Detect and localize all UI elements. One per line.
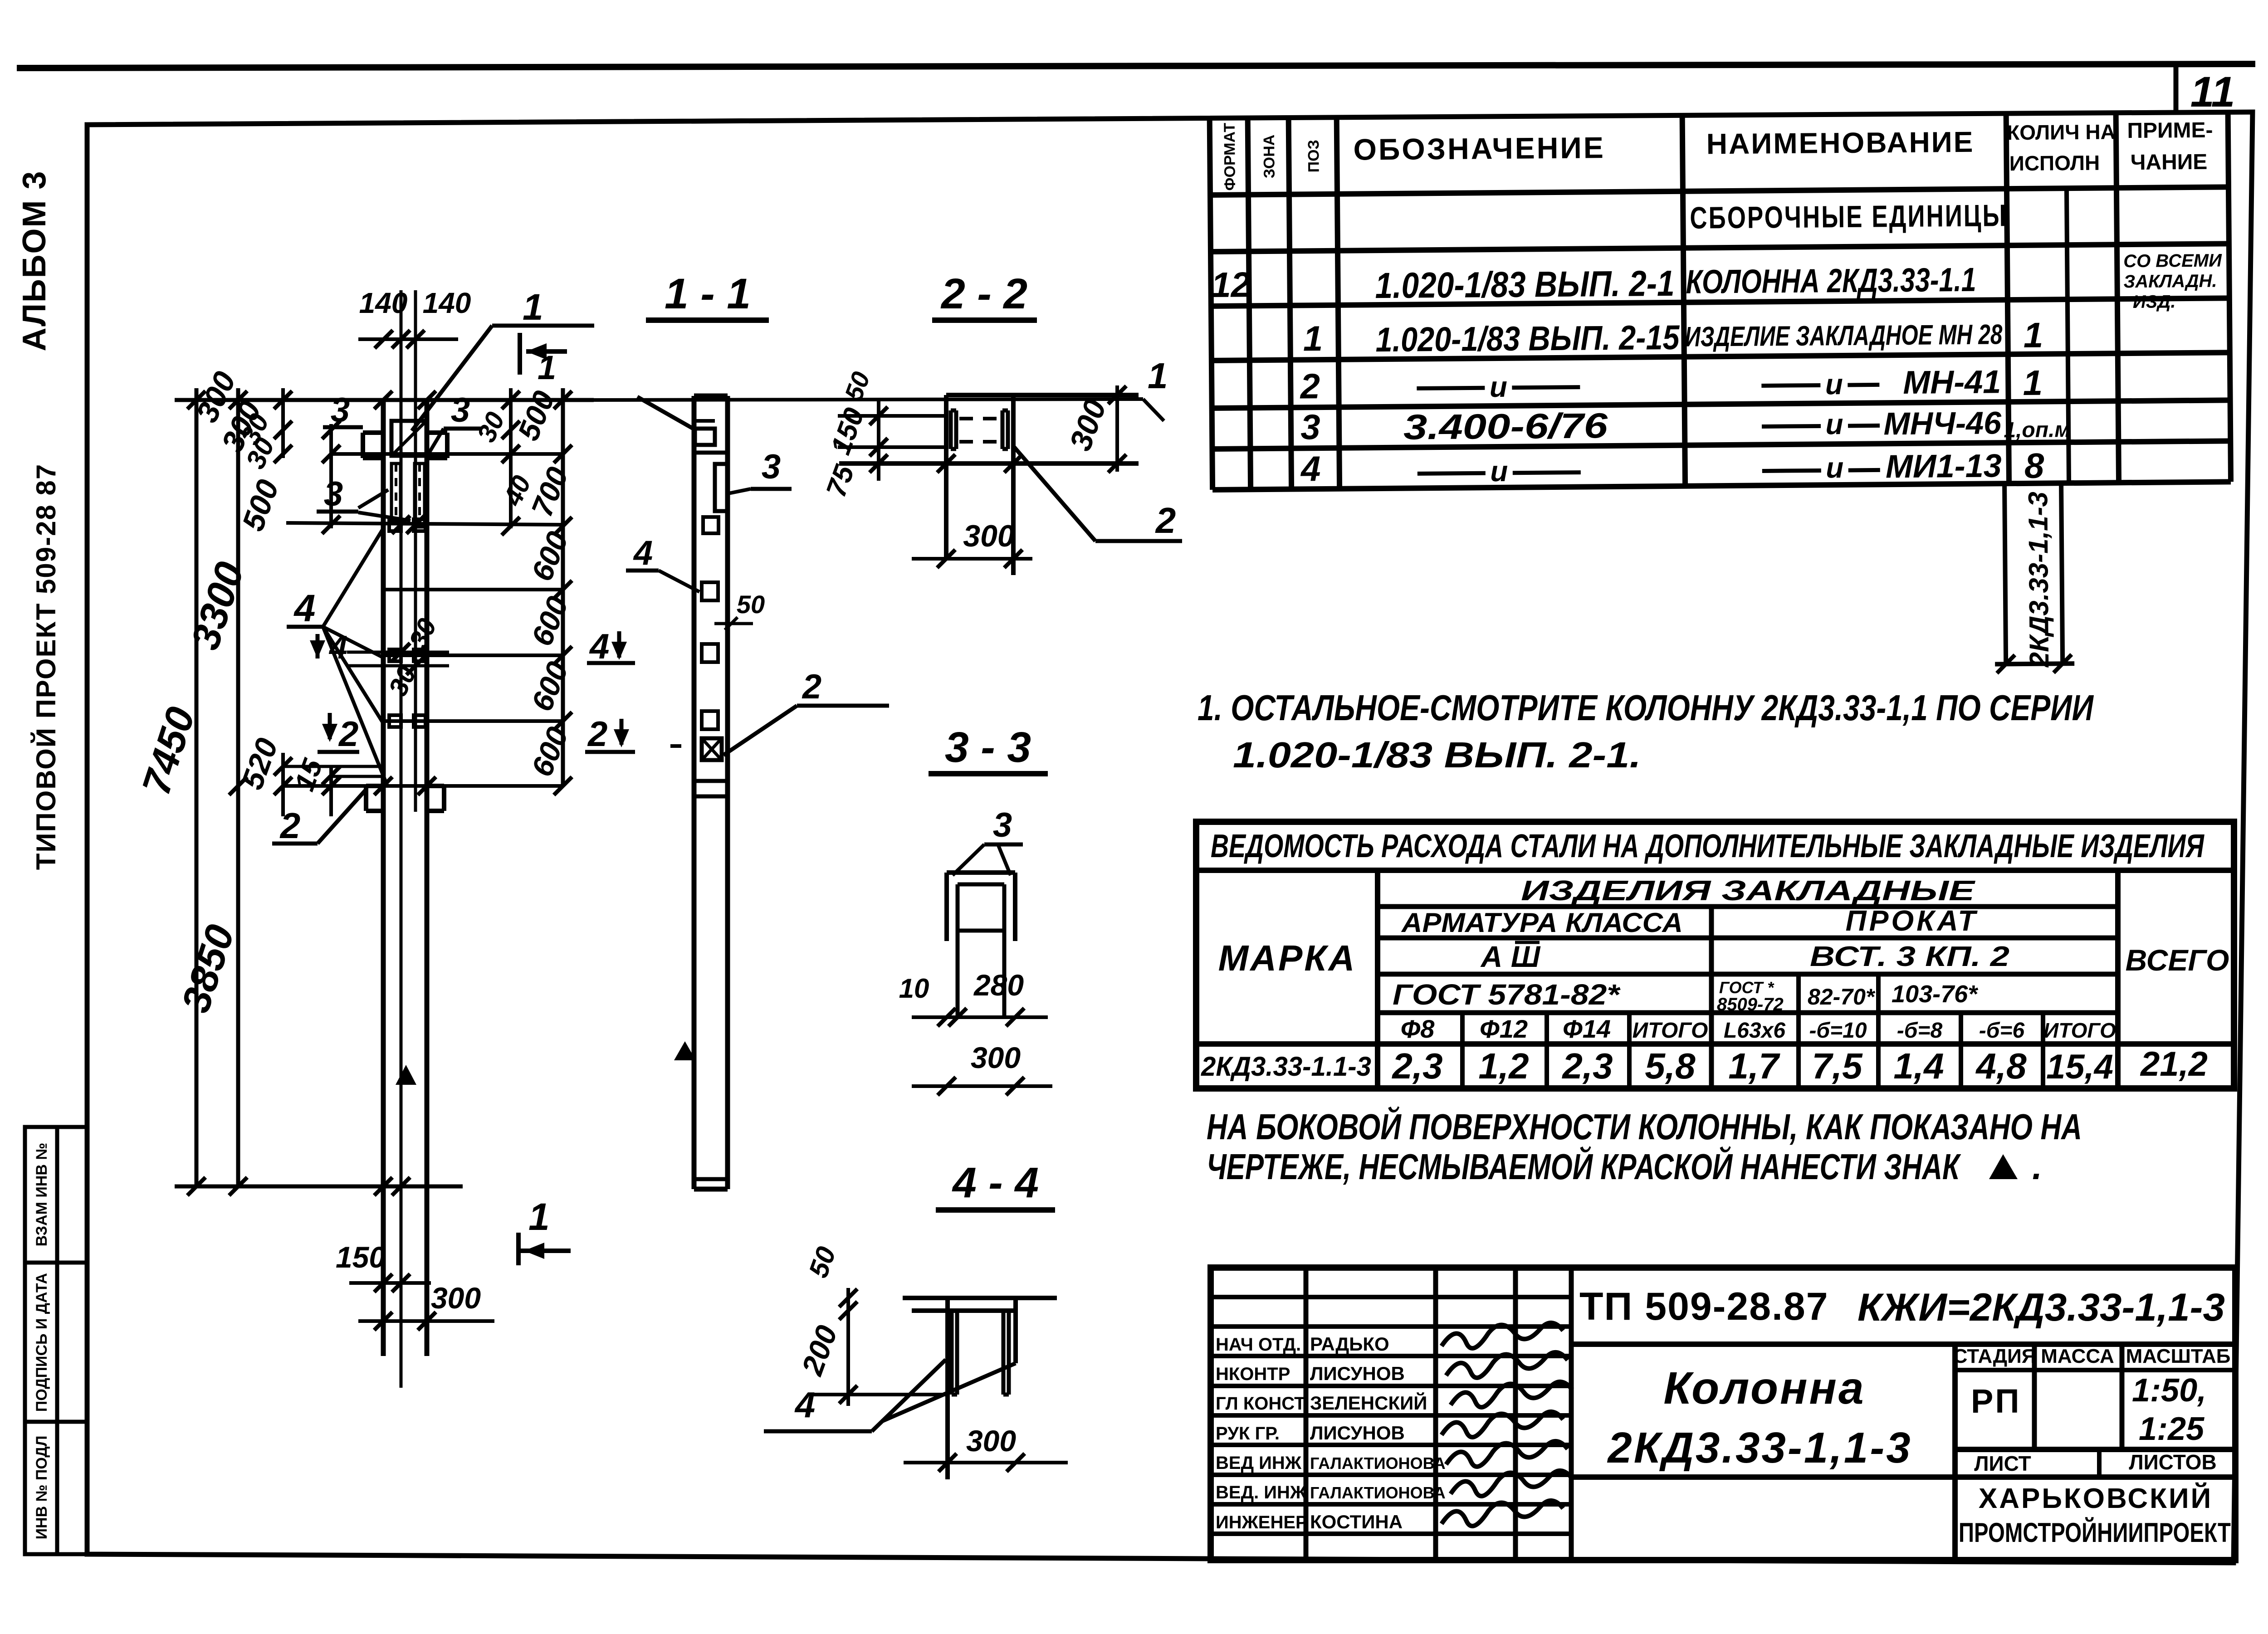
- svg-text:103-76*: 103-76*: [1892, 980, 1979, 1008]
- svg-text:3: 3: [762, 448, 781, 486]
- svg-text:ГОСТ 5781-82*: ГОСТ 5781-82*: [1393, 978, 1621, 1011]
- section 2-2 body: [839, 395, 1139, 575]
- scale 1:50 1:25: [2132, 1372, 2206, 1447]
- svg-text:ТИПОВОЙ ПРОЕКТ 509-28 87: ТИПОВОЙ ПРОЕКТ 509-28 87: [31, 463, 61, 870]
- svg-text:ПОДПИСЬ И ДАТА: ПОДПИСЬ И ДАТА: [33, 1273, 50, 1412]
- 2-2 bottom dim 300: [912, 519, 1032, 568]
- svg-text:КОЛИЧ НА: КОЛИЧ НА: [2007, 120, 2116, 144]
- svg-text:2: 2: [279, 805, 301, 846]
- svg-text:15,4: 15,4: [2046, 1048, 2113, 1086]
- svg-text:ТП 509-28.87: ТП 509-28.87: [1579, 1285, 1829, 1328]
- svg-text:1,7: 1,7: [1728, 1046, 1780, 1086]
- svg-text:ЛИСУНОВ: ЛИСУНОВ: [1310, 1422, 1405, 1444]
- svg-text:ПРИМЕ-: ПРИМЕ-: [2127, 118, 2213, 143]
- svg-text:700: 700: [525, 462, 575, 521]
- svg-text:82-70*: 82-70*: [1808, 984, 1876, 1010]
- svg-text:НАЧ ОТД.: НАЧ ОТД.: [1216, 1335, 1301, 1355]
- section mark 4 down-left: [310, 629, 347, 666]
- sheet top edge line: [17, 64, 2255, 68]
- marka strip below spec table: [1994, 483, 2074, 673]
- svg-text:ИСПОЛН: ИСПОЛН: [2009, 151, 2100, 176]
- svg-text:ГАЛАКТИОНОВА: ГАЛАКТИОНОВА: [1310, 1483, 1446, 1502]
- level line 1733: [283, 777, 563, 795]
- svg-text:1: 1: [2023, 363, 2043, 403]
- svg-text:280: 280: [973, 968, 1024, 1002]
- svg-text:8509-72: 8509-72: [1717, 995, 1784, 1015]
- 4-4 embedded channel: [952, 1313, 1009, 1395]
- svg-text:50: 50: [803, 1243, 842, 1282]
- spec header КОЛИЧ НА ИСПОЛН: [2007, 120, 2116, 175]
- svg-text:21,2: 21,2: [2140, 1045, 2208, 1083]
- right inner dimension line 30/40: [502, 388, 520, 535]
- svg-text:3: 3: [331, 391, 350, 429]
- page number box: [2174, 66, 2179, 114]
- svg-text:ИЗДЕЛИЯ ЗАКЛАДНЫЕ: ИЗДЕЛИЯ ЗАКЛАДНЫЕ: [1521, 875, 1975, 907]
- svg-text:1:50,: 1:50,: [2132, 1372, 2206, 1409]
- vedomost data row: [1201, 1045, 2208, 1086]
- svg-text:НАИМЕНОВАНИЕ: НАИМЕНОВАНИЕ: [1706, 126, 1975, 161]
- svg-text:1: 1: [2023, 315, 2043, 355]
- svg-text:АРМАТУРА КЛАССА: АРМАТУРА КЛАССА: [1401, 907, 1683, 938]
- svg-text:НА БОКОВОЙ ПОВЕРХНОСТИ КОЛОН: НА БОКОВОЙ ПОВЕРХНОСТИ КОЛОННЫ, КАК ПОКА…: [1207, 1106, 2082, 1147]
- dim vertical 730 bottom: [322, 766, 340, 816]
- quality sign triangle in note: [1989, 1146, 2042, 1187]
- vedomost table outer border: [1196, 822, 2234, 1088]
- svg-text:2: 2: [587, 714, 607, 754]
- svg-text:МАРКА: МАРКА: [1218, 938, 1357, 978]
- title block right grid: [1571, 1344, 2235, 1560]
- svg-text:ЧЕРТЕЖЕ, НЕСМЫВАЕМОЙ КРАСКОЙ: ЧЕРТЕЖЕ, НЕСМЫВАЕМОЙ КРАСКОЙ НАНЕСТИ ЗНА…: [1207, 1146, 1961, 1187]
- svg-text:140: 140: [359, 287, 408, 319]
- svg-text:4: 4: [293, 587, 316, 629]
- svg-text:300: 300: [431, 1281, 481, 1315]
- svg-text:300: 300: [1063, 395, 1113, 455]
- svg-text:ВЕД ИНЖ: ВЕД ИНЖ: [1216, 1453, 1302, 1473]
- spec row 1 ИЗДЕЛИЕ ЗАКЛАДНОЕ МН 28: [1303, 313, 2043, 361]
- svg-text:1: 1: [538, 349, 556, 386]
- label 2 on section 1-1: [723, 668, 889, 755]
- svg-text:ВСЕГО: ВСЕГО: [2126, 943, 2229, 977]
- specification table grid: [1210, 111, 2231, 490]
- label 3 mid with leaders: [317, 475, 411, 521]
- leader into section 1-1: [637, 397, 693, 429]
- margin stamp boxes: [25, 1127, 87, 1554]
- vedomost grid: [1196, 870, 2234, 1088]
- svg-text:300: 300: [971, 1041, 1021, 1074]
- dim 300 bottom: [358, 1281, 494, 1330]
- quality sign on elevation: [396, 1065, 416, 1085]
- section mark 1 bottom: [518, 1195, 571, 1265]
- svg-text:КОЛОННА 2КД3.33-1.1: КОЛОННА 2КД3.33-1.1: [1686, 261, 1976, 301]
- leader 2 on section 2-2: [1014, 447, 1182, 541]
- svg-text:-б=10: -б=10: [1809, 1019, 1867, 1043]
- svg-text:ВЕД. ИНЖ: ВЕД. ИНЖ: [1216, 1483, 1307, 1502]
- svg-text:1,оп.м: 1,оп.м: [2004, 418, 2071, 442]
- lower corbel: [366, 786, 444, 811]
- 1-1 small plate a: [703, 517, 719, 533]
- svg-text:12: 12: [1211, 264, 1251, 305]
- svg-text:СБОРОЧНЫЕ ЕДИНИЦЫ: СБОРОЧНЫЕ ЕДИНИЦЫ: [1690, 198, 2008, 235]
- svg-text:НКОНТР: НКОНТР: [1216, 1364, 1290, 1384]
- dim 150 bottom: [336, 1240, 431, 1292]
- svg-text:ЛИСУНОВ: ЛИСУНОВ: [1310, 1363, 1405, 1384]
- svg-text:2: 2: [1155, 500, 1176, 541]
- elevation dimension line 7450 vertical: [187, 388, 205, 1195]
- 4-4 left dims: [812, 1288, 948, 1406]
- section title 1-1: [646, 270, 769, 320]
- svg-text:1:25: 1:25: [2139, 1411, 2204, 1447]
- dim 140 140: [358, 287, 471, 348]
- svg-text:50: 50: [737, 590, 765, 619]
- spec row 3 3.400-6/76 МНЧ-46: [1300, 401, 2071, 448]
- svg-text:3850: 3850: [173, 919, 243, 1018]
- svg-text:АЛЬБОМ 3: АЛЬБОМ 3: [16, 171, 53, 351]
- svg-text:520: 520: [235, 734, 284, 794]
- svg-text:ГОСТ *: ГОСТ *: [1719, 978, 1774, 997]
- 2-2 right dim 300: [1063, 385, 1126, 473]
- section mark 1 top: [520, 333, 567, 386]
- left top dim vertical 730: [322, 421, 340, 534]
- svg-text:15: 15: [289, 754, 329, 795]
- svg-text:1: 1: [1148, 356, 1168, 396]
- svg-text:ПРОМСТРОЙНИИПРОЕКТ: ПРОМСТРОЙНИИПРОЕКТ: [1959, 1517, 2231, 1548]
- svg-text:МН-41: МН-41: [1903, 364, 2001, 401]
- svg-text:4: 4: [633, 534, 653, 572]
- leader 1 to top plate: [412, 287, 594, 431]
- svg-text:8: 8: [2024, 446, 2045, 486]
- 1-1 small plate c: [702, 644, 718, 662]
- svg-text:и: и: [1825, 408, 1843, 440]
- svg-text:1.020-1/83 ВЫП. 2-1: 1.020-1/83 ВЫП. 2-1: [1375, 263, 1675, 306]
- svg-text:ФОРМАТ: ФОРМАТ: [1221, 122, 1239, 190]
- label 3 top left: [323, 391, 363, 429]
- signature row ВЕД. ИНЖ ГАЛАКТИОНОВА: [1216, 1471, 1572, 1502]
- svg-text:ЗЕЛЕНСКИЙ: ЗЕЛЕНСКИЙ: [1310, 1392, 1427, 1414]
- 2-2 left dim lines: [838, 399, 1022, 481]
- column axis line A: [400, 290, 403, 1388]
- svg-text:1,4: 1,4: [1893, 1046, 1944, 1086]
- 2-2 embedded channel dashed: [951, 410, 1008, 449]
- section 4-4 body: [903, 1298, 1057, 1479]
- svg-text:1: 1: [528, 1195, 550, 1238]
- label 4 on section 4-4: [764, 1360, 1016, 1431]
- svg-text:75: 75: [821, 460, 861, 501]
- svg-text:7450: 7450: [133, 702, 204, 800]
- svg-text:500: 500: [235, 475, 285, 536]
- svg-text:2,3: 2,3: [1391, 1046, 1442, 1086]
- svg-text:ПОЗ: ПОЗ: [1305, 140, 1323, 172]
- svg-text:СТАДИЯ: СТАДИЯ: [1953, 1345, 2036, 1367]
- 1-1 right plate item3: [715, 464, 728, 511]
- 1-1 top plate: [694, 421, 728, 453]
- level line 1001: [331, 452, 563, 456]
- svg-text:600: 600: [525, 527, 575, 585]
- svg-text:2КД3.33-1,1-3: 2КД3.33-1,1-3: [2023, 492, 2054, 668]
- svg-text:МАССА: МАССА: [2041, 1345, 2114, 1367]
- spec header ПРИМЕЧАНИЕ: [2127, 118, 2213, 175]
- vedomost subheaders diameters: [1401, 1015, 2116, 1043]
- top corbel: [363, 433, 447, 458]
- section mark 4 right: [587, 626, 635, 666]
- svg-text:ИТОГО: ИТОГО: [2043, 1019, 2116, 1042]
- right outer dimension line 500/700/600: [554, 388, 572, 795]
- svg-text:МАСШТАБ: МАСШТАБ: [2126, 1345, 2231, 1367]
- label 4 on section 1-1: [626, 534, 699, 592]
- svg-text:1.020-1/83 ВЫП. 2-1.: 1.020-1/83 ВЫП. 2-1.: [1233, 735, 1641, 775]
- 1-1 small plate b: [702, 582, 718, 600]
- signature row ИНЖЕНЕР КОСТИНА: [1216, 1501, 1563, 1532]
- label 3 on section 1-1: [728, 448, 792, 493]
- signature row ГЛ КОНСТ ЗЕЛЕНСКИЙ: [1216, 1382, 1572, 1414]
- section mark 2 right: [585, 714, 635, 754]
- svg-text:и: и: [1826, 451, 1844, 484]
- section cut line 1-1 top: [594, 356, 1168, 421]
- svg-text:200: 200: [795, 1321, 844, 1380]
- svg-text:Ф8: Ф8: [1401, 1015, 1435, 1043]
- svg-text:10: 10: [899, 973, 929, 1004]
- svg-text:300: 300: [963, 519, 1015, 553]
- 1-1 plate with cross item2: [702, 738, 722, 760]
- spec row 4 МИ1-13: [1300, 443, 2045, 492]
- label 3 top right: [429, 391, 482, 454]
- svg-text:1.020-1/83 ВЫП. 2-15: 1.020-1/83 ВЫП. 2-15: [1375, 318, 1680, 359]
- svg-text:1,2: 1,2: [1478, 1046, 1529, 1086]
- svg-text:3300: 3300: [182, 556, 253, 655]
- vedomost title row: [1196, 868, 2234, 873]
- svg-text:3: 3: [1300, 407, 1320, 447]
- svg-text:2КД3.33-1,1-3: 2КД3.33-1,1-3: [1607, 1424, 1912, 1472]
- mid 30 dim lines: [347, 643, 449, 675]
- svg-text:МИ1-13: МИ1-13: [1886, 448, 2002, 485]
- svg-text:5,8: 5,8: [1645, 1046, 1696, 1086]
- label 4 with fan leaders: [287, 528, 388, 787]
- svg-text:ЧАНИЕ: ЧАНИЕ: [2131, 150, 2208, 175]
- title block left grid: [1211, 1268, 1571, 1560]
- level line 1300: [383, 588, 563, 591]
- signature row РУК ГР. ЛИСУНОВ: [1216, 1412, 1563, 1444]
- signature row ВЕД ИНЖ ГАЛАКТИОНОВА: [1216, 1441, 1568, 1473]
- svg-text:4 - 4: 4 - 4: [952, 1159, 1039, 1207]
- svg-text:и: и: [1490, 455, 1508, 488]
- svg-text:ИЗД.: ИЗД.: [2133, 292, 2176, 312]
- section title 2-2: [932, 270, 1037, 320]
- svg-text:.: .: [2032, 1146, 2042, 1187]
- svg-text:140: 140: [423, 287, 471, 319]
- section 1-1 body: [694, 396, 728, 1189]
- dashed embedded plates item 3: [391, 463, 425, 527]
- svg-text:4: 4: [1300, 449, 1321, 488]
- svg-text:ПРОКАТ: ПРОКАТ: [1846, 904, 1979, 937]
- svg-text:2 - 2: 2 - 2: [940, 270, 1027, 318]
- small dim lines near lower corbel: [283, 766, 383, 776]
- svg-text:ХАРЬКОВСКИЙ: ХАРЬКОВСКИЙ: [1979, 1483, 2213, 1514]
- svg-text:2: 2: [338, 714, 358, 754]
- spec row 12 КОЛОННА 2КД3.33-1.1: [1211, 250, 2223, 319]
- svg-text:-б=6: -б=6: [1979, 1019, 2025, 1043]
- svg-text:3 - 3: 3 - 3: [945, 723, 1031, 771]
- label 2 lower left with leader: [272, 790, 366, 846]
- svg-text:1: 1: [523, 287, 543, 328]
- 3-3 dim 10/280: [899, 968, 1048, 1026]
- svg-text:2,3: 2,3: [1561, 1046, 1613, 1086]
- level line 1160: [286, 516, 563, 534]
- bottom dimension line of elevation: [175, 1177, 463, 1195]
- svg-text:30: 30: [403, 614, 442, 653]
- svg-text:L63x6: L63x6: [1724, 1019, 1785, 1043]
- svg-text:ЗАКЛАДН.: ЗАКЛАДН.: [2123, 271, 2217, 292]
- svg-text:2: 2: [802, 668, 821, 706]
- svg-text:ИНЖЕНЕР: ИНЖЕНЕР: [1216, 1512, 1308, 1532]
- 3-3 dim 300: [912, 1041, 1052, 1095]
- svg-text:3: 3: [324, 475, 343, 513]
- svg-text:2КД3.33-1.1-3: 2КД3.33-1.1-3: [1201, 1051, 1371, 1082]
- dim 50 on section 1-1: [714, 590, 765, 630]
- svg-text:600: 600: [525, 722, 575, 781]
- title block outer border: [1211, 1268, 2235, 1560]
- svg-text:ЛИСТ: ЛИСТ: [1974, 1452, 2031, 1475]
- svg-text:300: 300: [966, 1424, 1016, 1458]
- svg-text:РП: РП: [1971, 1382, 2021, 1420]
- svg-text:150: 150: [336, 1240, 386, 1274]
- svg-text:ИТОГО: ИТОГО: [1633, 1019, 1708, 1043]
- svg-text:ЗОНА: ЗОНА: [1261, 135, 1278, 179]
- elevation dimension line 3300/3850 vertical: [229, 388, 247, 1195]
- svg-text:11: 11: [2190, 68, 2235, 116]
- svg-text:150: 150: [825, 404, 870, 459]
- svg-text:3: 3: [993, 806, 1012, 844]
- svg-text:ГАЛАКТИОНОВА: ГАЛАКТИОНОВА: [1310, 1454, 1446, 1473]
- svg-text:КОСТИНА: КОСТИНА: [1310, 1511, 1403, 1532]
- svg-text:7,5: 7,5: [1812, 1046, 1863, 1086]
- svg-text:600: 600: [525, 657, 575, 716]
- column left edge: [381, 400, 386, 1356]
- label 3 above section 3-3: [953, 806, 1023, 875]
- svg-text:1. ОСТАЛЬНОЕ-СМОТРИТЕ КОЛОННУ: 1. ОСТАЛЬНОЕ-СМОТРИТЕ КОЛОННУ 2КД3.33-1,…: [1198, 688, 2094, 728]
- section title 4-4: [936, 1159, 1055, 1210]
- svg-text:ГЛ КОНСТ: ГЛ КОНСТ: [1216, 1394, 1305, 1414]
- 1-1 small plate d: [702, 711, 718, 729]
- svg-text:ИНВ № ПОДЛ: ИНВ № ПОДЛ: [33, 1436, 50, 1540]
- svg-text:ВЕДОМОСТЬ РАСХОДА СТАЛИ НА ДО: ВЕДОМОСТЬ РАСХОДА СТАЛИ НА ДОПОЛНИТЕЛЬНЫ…: [1211, 828, 2204, 864]
- svg-text:3: 3: [451, 391, 470, 429]
- svg-text:Колонна: Колонна: [1663, 1363, 1865, 1414]
- signature row НАЧ ОТД. РАДЬКО: [1216, 1323, 1563, 1355]
- dim vertical 624 bottom: [274, 753, 292, 816]
- svg-text:Ф12: Ф12: [1480, 1015, 1528, 1043]
- svg-text:и: и: [1825, 368, 1843, 400]
- vedomost header ГОСТ 8509-72: [1717, 978, 1784, 1015]
- vedomost header А III: [1480, 940, 1541, 973]
- svg-text:ВСТ. 3 КП. 2: ВСТ. 3 КП. 2: [1810, 941, 2009, 972]
- svg-text:А Ш: А Ш: [1480, 940, 1541, 973]
- signature row НКОНТР ЛИСУНОВ: [1216, 1352, 1568, 1384]
- svg-text:1 - 1: 1 - 1: [665, 270, 751, 318]
- svg-text:ЛИСТОВ: ЛИСТОВ: [2129, 1450, 2216, 1474]
- svg-text:ВЗАМ ИНВ №: ВЗАМ ИНВ №: [33, 1143, 50, 1247]
- svg-text:3.400-6/76: 3.400-6/76: [1403, 405, 1608, 447]
- svg-text:Ф14: Ф14: [1563, 1015, 1611, 1043]
- svg-text:1: 1: [1303, 318, 1323, 358]
- svg-text:МНЧ-46: МНЧ-46: [1883, 405, 2002, 441]
- column axis line B: [414, 290, 417, 812]
- svg-text:4: 4: [328, 629, 347, 666]
- svg-text:-б=8: -б=8: [1897, 1019, 1943, 1043]
- level line 1445: [383, 654, 563, 657]
- column right edge: [425, 400, 430, 1356]
- svg-text:РУК ГР.: РУК ГР.: [1216, 1424, 1280, 1444]
- svg-text:ИЗДЕЛИЕ ЗАКЛАДНОЕ МН 28: ИЗДЕЛИЕ ЗАКЛАДНОЕ МН 28: [1685, 319, 2003, 352]
- small plate marks on column: [389, 519, 425, 727]
- svg-text:4,8: 4,8: [1975, 1046, 2027, 1086]
- section 3-3 body: [947, 873, 1015, 1017]
- spec row 2 МН-41: [1299, 361, 2043, 409]
- svg-text:КЖИ=2КД3.33-1,1-3: КЖИ=2КД3.33-1,1-3: [1857, 1286, 2225, 1329]
- svg-text:РАДЬКО: РАДЬКО: [1310, 1333, 1389, 1355]
- 4-4 bottom dim 300: [904, 1424, 1068, 1472]
- left top dim vertical 624: [274, 388, 292, 463]
- svg-text:и: и: [1490, 371, 1508, 403]
- top dimension line of column: [175, 391, 594, 409]
- svg-text:2: 2: [1299, 366, 1320, 406]
- svg-text:ОБОЗНАЧЕНИЕ: ОБОЗНАЧЕНИЕ: [1353, 131, 1605, 166]
- svg-text:СО ВСЕМИ: СО ВСЕМИ: [2123, 250, 2222, 271]
- level line 1590: [383, 719, 563, 723]
- section title 3-3: [929, 723, 1048, 774]
- quality sign on section 1-1: [670, 746, 696, 1060]
- section mark 2 left: [318, 713, 359, 754]
- svg-text:4: 4: [589, 626, 609, 666]
- top embedded plate with leader target: [391, 421, 426, 456]
- svg-text:600: 600: [525, 591, 575, 650]
- svg-text:4: 4: [794, 1385, 816, 1425]
- 1-1 bottom band plate: [694, 781, 728, 796]
